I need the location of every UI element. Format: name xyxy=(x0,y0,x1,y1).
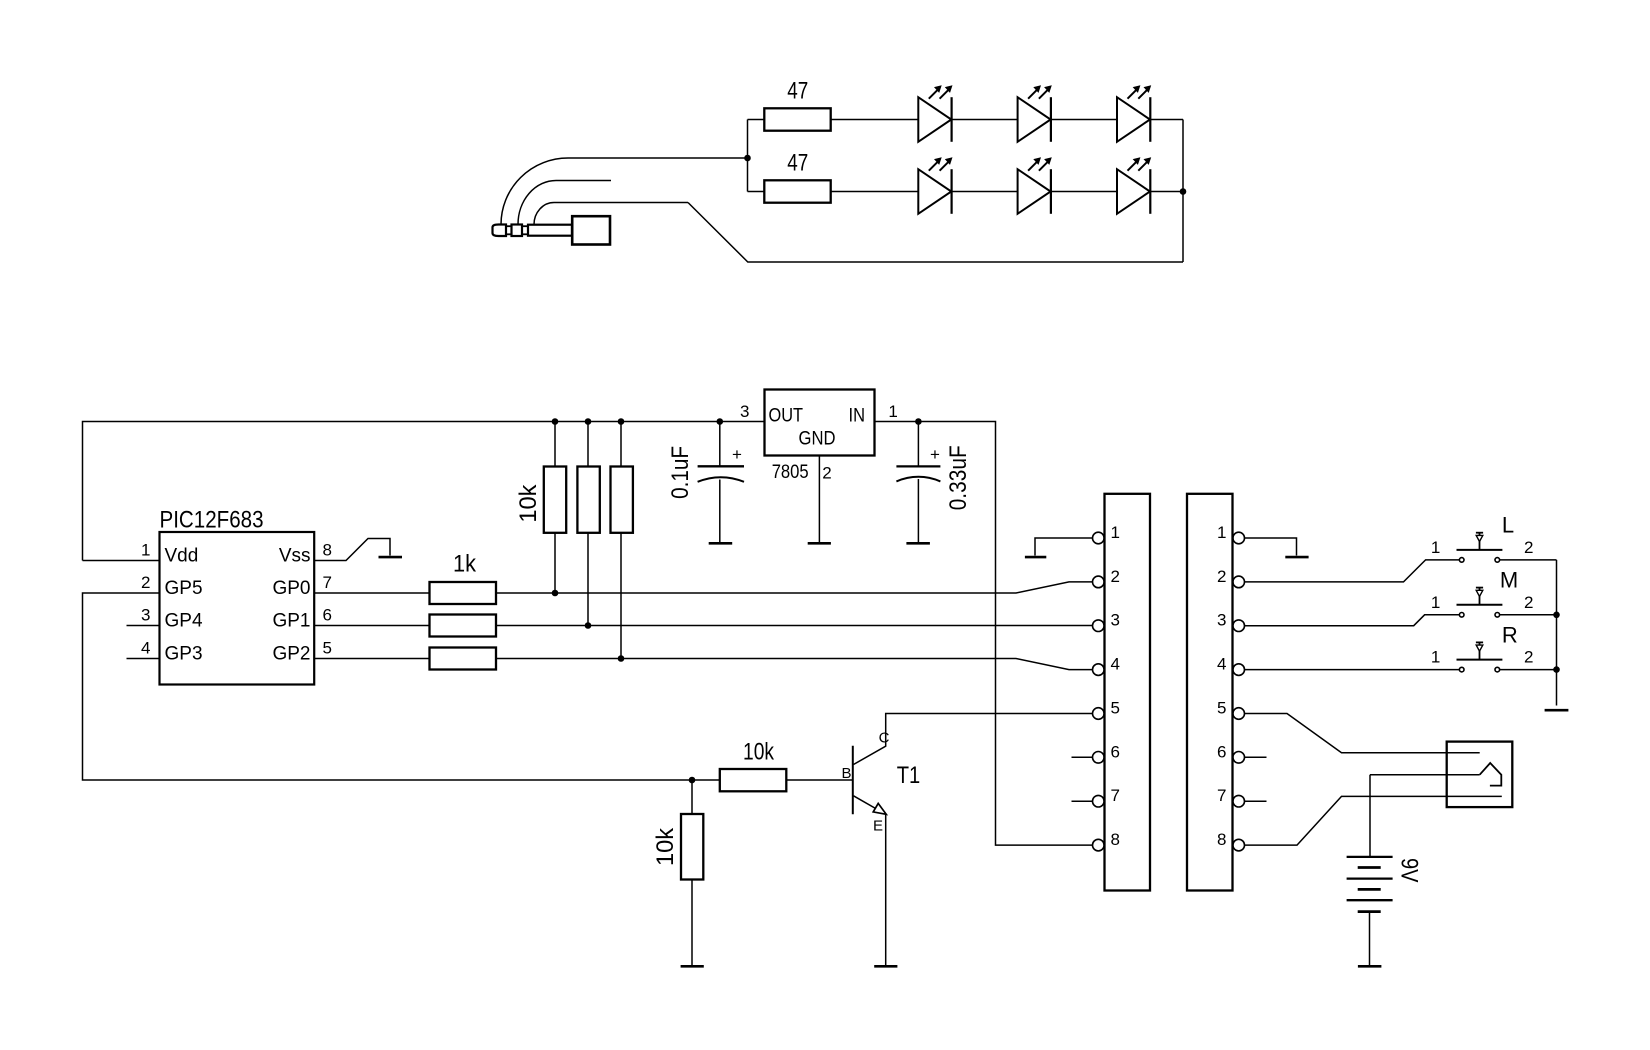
wire R10 bottom lead xyxy=(691,880,693,966)
node GP0/R6 junction xyxy=(552,590,559,597)
svg-text:10k: 10k xyxy=(652,827,679,866)
wire row2 junction to R2 xyxy=(748,191,765,193)
node rail/R6 xyxy=(552,418,559,425)
resistor R2 47 xyxy=(764,180,830,202)
wire J2 pin8 to switch bottom xyxy=(1245,796,1502,845)
svg-text:7805: 7805 xyxy=(772,462,809,483)
wire button common vertical xyxy=(1556,560,1558,706)
wire R1 to LED1 xyxy=(831,119,919,121)
svg-text:6: 6 xyxy=(1111,742,1120,761)
wire right rail vertical xyxy=(1182,120,1184,263)
pushbutton S2 M xyxy=(1457,588,1503,618)
svg-text:47: 47 xyxy=(787,78,808,105)
ground T1 emitter xyxy=(874,965,897,968)
svg-text:+: + xyxy=(930,445,940,464)
svg-text:L: L xyxy=(1502,513,1514,538)
connector J2 body xyxy=(1187,494,1233,891)
connector J1 pin numbers xyxy=(1111,523,1120,849)
svg-text:4: 4 xyxy=(141,639,150,658)
ground R10 xyxy=(681,965,704,968)
svg-text:9V: 9V xyxy=(1395,858,1422,883)
LED D2 xyxy=(1018,85,1052,142)
capacitor C2 0.33uF lead xyxy=(917,422,919,467)
LED D3 xyxy=(1117,85,1151,142)
capacitor C1 top plate xyxy=(698,465,744,467)
svg-text:5: 5 xyxy=(1217,699,1226,718)
wire GP2 pin5 to R5 xyxy=(314,658,429,660)
transistor T1 emitter arrowhead xyxy=(873,803,886,814)
transistor T1 emitter xyxy=(854,796,884,813)
resistor R7 10k pullup xyxy=(577,467,599,533)
resistor R3 1k xyxy=(430,582,497,604)
svg-text:GP0: GP0 xyxy=(272,578,310,599)
connector J2 pin numbers xyxy=(1217,523,1226,849)
LED D4 xyxy=(918,157,952,214)
node junction LED rows right xyxy=(1180,188,1187,195)
svg-text:1: 1 xyxy=(1431,593,1440,612)
wire button M to common xyxy=(1500,614,1557,616)
ground VR1 xyxy=(808,542,831,545)
switch S4 lever xyxy=(1480,763,1502,786)
connector J1 body xyxy=(1105,494,1151,891)
svg-text:4: 4 xyxy=(1217,655,1226,674)
wire GP5 pin2 down-around to base resistor row xyxy=(83,593,720,780)
svg-text:6: 6 xyxy=(323,606,332,625)
svg-text:M: M xyxy=(1500,568,1518,593)
node GP2/R8 junction xyxy=(618,655,625,662)
wire GP0 net to connector J1 pin2 xyxy=(496,582,1093,593)
svg-text:8: 8 xyxy=(1111,830,1120,849)
wire button R to common xyxy=(1500,669,1557,671)
svg-text:5: 5 xyxy=(1111,699,1120,718)
svg-text:+: + xyxy=(732,445,742,464)
LED D1 xyxy=(918,85,952,142)
capacitor C2 top plate xyxy=(896,465,940,467)
wire bottom return xyxy=(688,203,1183,263)
wire battery negative to ground xyxy=(1369,912,1371,966)
svg-text:2: 2 xyxy=(1524,648,1533,667)
wire pullup R7 top xyxy=(587,422,589,467)
ground Vss xyxy=(379,556,403,559)
svg-text:B: B xyxy=(841,765,851,782)
svg-text:10k: 10k xyxy=(743,739,775,766)
wire junction to both 47 resistors xyxy=(747,120,749,192)
svg-text:GP4: GP4 xyxy=(165,611,203,632)
wire LED4 to LED5 xyxy=(952,191,1018,193)
ground buttons common xyxy=(1545,709,1569,712)
switch S4 body xyxy=(1447,742,1513,808)
svg-text:7: 7 xyxy=(1111,786,1120,805)
battery B1 plates xyxy=(1347,857,1393,912)
node buttons R common xyxy=(1553,666,1560,673)
svg-text:2: 2 xyxy=(141,573,150,592)
wire R2 to LED4 xyxy=(831,191,919,193)
wire Vss pin8 jumper to ground xyxy=(314,539,390,561)
wire LED2 to LED3 xyxy=(1051,119,1117,121)
wire Vdd pin1 xyxy=(83,560,160,562)
resistor R5 1k xyxy=(430,648,497,670)
connector X1 plug ring xyxy=(512,225,523,237)
wire LED6 to right rail xyxy=(1150,191,1183,193)
svg-text:GP5: GP5 xyxy=(165,578,203,599)
svg-text:E: E xyxy=(873,818,883,835)
wire VCC rail 7805 IN to right rail down to J1 pin8 xyxy=(875,422,1093,846)
svg-text:10k: 10k xyxy=(515,484,542,523)
capacitor C1 lower lead xyxy=(719,480,721,543)
svg-text:1: 1 xyxy=(888,402,897,421)
wire plug tip to LED junction xyxy=(501,158,748,225)
wire LED5 to LED6 xyxy=(1051,191,1117,193)
svg-text:1k: 1k xyxy=(453,551,477,578)
node rail/R7 xyxy=(585,418,592,425)
connector J2 pin circles xyxy=(1233,532,1245,851)
wire pullup R8 top xyxy=(620,422,622,467)
wire button L to common xyxy=(1500,559,1557,561)
wire J2 pin1 to ground xyxy=(1245,538,1297,556)
node junction plug/resistors xyxy=(744,155,751,162)
svg-text:1: 1 xyxy=(1217,523,1226,542)
wire LED3 to right rail xyxy=(1150,119,1183,121)
IC U1 PIC12F683 body xyxy=(160,532,315,685)
pin stub J2 pin7 xyxy=(1245,800,1267,802)
wire J2 pin5 to switch top xyxy=(1245,714,1480,753)
wire switch middle to battery xyxy=(1369,775,1371,857)
svg-text:C: C xyxy=(879,730,890,747)
connector J1 pin circles xyxy=(1093,532,1105,851)
svg-text:OUT: OUT xyxy=(769,405,804,426)
capacitor C2 curved plate xyxy=(896,477,940,482)
wire R9 to T1 base xyxy=(786,779,852,781)
svg-text:8: 8 xyxy=(1217,830,1226,849)
wire GP2 net to connector J1 pin4 xyxy=(496,659,1093,670)
svg-text:6: 6 xyxy=(1217,742,1226,761)
svg-text:2: 2 xyxy=(1524,538,1533,557)
wire LED1 to LED2 xyxy=(952,119,1018,121)
svg-text:GP3: GP3 xyxy=(165,644,203,665)
node base line / R10 junction xyxy=(689,777,696,784)
svg-text:4: 4 xyxy=(1111,655,1120,674)
wire J2 pin2 to button L xyxy=(1245,560,1460,582)
pin stub GP4 pin3 xyxy=(127,625,160,627)
capacitor C1 0.1uF lead xyxy=(719,422,721,467)
pin stub J1 pin6 xyxy=(1072,756,1093,758)
svg-text:Vss: Vss xyxy=(279,546,311,567)
svg-text:Vdd: Vdd xyxy=(165,546,199,567)
wire J1 pin1 to ground xyxy=(1035,538,1093,556)
ground J2 pin1 xyxy=(1285,556,1308,559)
svg-text:T1: T1 xyxy=(897,762,921,789)
connector X1 plug body xyxy=(572,216,610,244)
wire J2 pin4 to button R xyxy=(1245,669,1460,671)
node GP1/R7 junction xyxy=(585,622,592,629)
svg-text:5: 5 xyxy=(323,639,332,658)
wire R10 top lead xyxy=(691,780,693,814)
wire GP1 net to connector J1 pin3 xyxy=(496,625,1093,627)
wire VCC top rail left xyxy=(83,422,765,561)
resistor R4 1k xyxy=(430,615,497,637)
svg-text:0.33uF: 0.33uF xyxy=(945,445,972,510)
svg-text:3: 3 xyxy=(1111,611,1120,630)
svg-text:8: 8 xyxy=(323,541,332,560)
connector X1 plug joint 2 xyxy=(522,226,528,234)
svg-text:1: 1 xyxy=(1111,523,1120,542)
resistor R8 10k pullup xyxy=(611,467,633,533)
switch S4 middle terminal wire xyxy=(1370,774,1480,776)
wire T1 emitter to ground xyxy=(885,815,887,966)
svg-text:2: 2 xyxy=(1217,567,1226,586)
svg-text:GND: GND xyxy=(799,428,836,449)
wire GP1 pin6 to R4 xyxy=(314,625,429,627)
svg-text:2: 2 xyxy=(1111,567,1120,586)
node rail/C2 xyxy=(915,418,922,425)
ground C2 xyxy=(906,542,930,545)
capacitor C1 curved plate xyxy=(698,477,744,482)
svg-text:0.1uF: 0.1uF xyxy=(667,446,694,499)
capacitor C2 lower lead xyxy=(917,479,919,543)
svg-text:GP2: GP2 xyxy=(272,644,310,665)
svg-text:2: 2 xyxy=(1524,593,1533,612)
LED D6 xyxy=(1117,157,1151,214)
LED D5 xyxy=(1018,157,1052,214)
svg-text:3: 3 xyxy=(141,606,150,625)
wire pullup R6 top xyxy=(554,422,556,467)
wire VR1 GND pin xyxy=(818,456,820,543)
wire pullup R6 bottom xyxy=(554,533,556,593)
svg-text:1: 1 xyxy=(1431,648,1440,667)
connector X1 plug shaft xyxy=(528,225,572,236)
pushbutton S1 L xyxy=(1457,533,1503,563)
node rail/R8 xyxy=(618,418,625,425)
svg-text:1: 1 xyxy=(1431,538,1440,557)
connector X1 plug joint 1 xyxy=(506,226,512,234)
pin stub GP3 pin4 xyxy=(127,658,160,660)
ground battery xyxy=(1358,965,1382,968)
regulator VR1 7805 body xyxy=(765,390,875,456)
pushbutton S3 R xyxy=(1457,642,1503,672)
wire plug sleeve to LED return xyxy=(534,203,688,225)
ground J1 pin1 xyxy=(1025,556,1046,559)
wire GP0 pin7 to R3 xyxy=(314,592,429,594)
pin stub J1 pin7 xyxy=(1072,800,1093,802)
wire row1 junction to R1 xyxy=(748,119,765,121)
resistor R10 10k pulldown xyxy=(681,814,703,880)
node rail/C1 xyxy=(717,418,724,425)
wire plug ring (unconnected stub) xyxy=(518,181,611,225)
node buttons M common xyxy=(1553,612,1560,619)
wire J2 pin3 to button M xyxy=(1245,615,1460,626)
resistor R6 10k pullup xyxy=(544,467,566,533)
svg-text:47: 47 xyxy=(787,150,808,177)
connector X1 plug tip xyxy=(493,225,507,237)
transistor T1 base bar xyxy=(852,746,854,815)
wire pullup R8 bottom xyxy=(620,533,622,659)
transistor T1 collector xyxy=(854,714,1093,765)
wire pullup R7 bottom xyxy=(587,533,589,626)
svg-text:R: R xyxy=(1502,622,1518,647)
svg-text:7: 7 xyxy=(323,573,332,592)
svg-text:3: 3 xyxy=(1217,611,1226,630)
svg-text:2: 2 xyxy=(822,464,831,483)
resistor R1 47 xyxy=(764,108,830,130)
svg-text:GP1: GP1 xyxy=(272,611,310,632)
svg-text:PIC12F683: PIC12F683 xyxy=(160,507,264,534)
ground C1 xyxy=(709,542,733,545)
resistor R9 10k series base xyxy=(720,769,787,791)
svg-text:IN: IN xyxy=(849,405,866,426)
svg-text:1: 1 xyxy=(141,541,150,560)
pin stub J2 pin6 xyxy=(1245,756,1267,758)
svg-text:3: 3 xyxy=(740,402,749,421)
svg-text:7: 7 xyxy=(1217,786,1226,805)
